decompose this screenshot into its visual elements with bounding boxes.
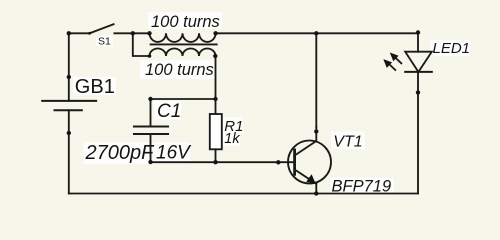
svg-text:VT1: VT1	[333, 134, 362, 151]
svg-text:100 turns: 100 turns	[145, 61, 214, 79]
transistor VT1 collector stroke	[295, 141, 317, 156]
label box: 100 turns (secondary)	[140, 60, 216, 79]
wire junction to primary coil	[133, 32, 150, 34]
node: LED top corner	[416, 30, 420, 34]
wire emitter lead down to bottom rail	[315, 184, 317, 194]
svg-text:1k: 1k	[224, 131, 240, 147]
LED1 triangle	[405, 52, 432, 72]
wire left rail upper (corner to battery top plate)	[68, 33, 70, 101]
node: battery bottom pin	[67, 131, 71, 135]
label box: GB1	[73, 77, 116, 95]
transistor VT1 circle	[288, 141, 331, 184]
svg-text:GB1: GB1	[75, 76, 115, 98]
inductor L1 primary 100 turns	[150, 33, 216, 42]
node: collector junction on top rail	[314, 31, 318, 35]
LED arrow 2 tail	[389, 64, 396, 71]
wire secondary coil down to R1	[215, 56, 217, 114]
node: primary coil left pin	[147, 31, 151, 35]
label box: VT1	[331, 132, 365, 150]
wire C1 bottom lead	[150, 134, 152, 162]
label box: S1	[96, 36, 113, 47]
node: primary coil right pin	[213, 31, 217, 35]
svg-text:C1: C1	[157, 101, 181, 122]
node: collector pin	[314, 129, 318, 133]
label box: LED1	[430, 40, 470, 56]
svg-text:S1: S1	[98, 35, 111, 47]
LED arrow 2 head	[383, 59, 392, 68]
wire collector lead up	[315, 127, 317, 141]
label box: 1k	[223, 131, 240, 146]
battery GB1 short plate	[55, 109, 82, 111]
wire C1 to transistor base	[151, 161, 295, 163]
node: secondary coil left pin	[148, 54, 152, 58]
svg-text:16V: 16V	[156, 143, 192, 164]
node: R1 bottom junction	[213, 160, 217, 164]
wire right rail to bottom	[417, 93, 419, 194]
wire bottom rail	[69, 193, 418, 195]
node: secondary coil right pin	[213, 54, 217, 58]
LED1 cathode bar	[405, 71, 432, 73]
node: C1 bottom pin	[148, 160, 152, 164]
label box: C1	[154, 101, 181, 120]
node: transistor base pin	[276, 160, 280, 164]
svg-text:2700pF: 2700pF	[85, 142, 156, 164]
resistor R1 body	[210, 114, 222, 149]
label box: R1	[223, 117, 243, 133]
wire C1 top lead	[150, 99, 152, 127]
switch S1 blade	[90, 24, 114, 33]
transistor emitter arrowhead	[306, 174, 316, 184]
wire collector to top rail	[315, 33, 317, 127]
svg-text:LED1: LED1	[433, 40, 471, 57]
inductor L2 secondary 100 turns	[150, 49, 216, 56]
node: battery top pin	[67, 75, 71, 79]
wire switch to junction	[114, 32, 132, 34]
battery GB1 long plate	[42, 100, 96, 102]
label box: 2700pF	[84, 142, 150, 164]
transistor VT1 base bar	[293, 150, 296, 174]
LED arrow 1 head	[390, 53, 399, 62]
wire top rail from primary coil to LED corner	[216, 32, 418, 34]
node: LED bottom pin	[416, 90, 420, 94]
label box: 16V	[154, 142, 191, 162]
svg-text:100 turns: 100 turns	[151, 13, 220, 31]
label box: BFP719	[330, 178, 394, 194]
capacitor C1 plates	[134, 125, 168, 127]
node: top-left corner	[67, 31, 71, 35]
wire left rail lower (battery bottom plate to bottom rail)	[68, 110, 70, 193]
wire branch down to secondary coil	[133, 33, 150, 56]
wire LED cathode lead	[417, 72, 419, 93]
wire right rail: top corner to LED anode	[417, 33, 419, 51]
node: C1 top pin	[148, 97, 152, 101]
node: R1 top junction	[213, 97, 217, 101]
wire C1 top to R1 rail	[151, 98, 216, 100]
LED arrow 1 tail	[395, 57, 402, 64]
label box: 100 turns (primary)	[148, 12, 222, 29]
node: switch-coil junction	[131, 31, 135, 35]
svg-text:BFP719: BFP719	[332, 178, 392, 196]
node: emitter junction on bottom rail	[314, 191, 318, 195]
transformer core	[151, 43, 217, 45]
wire R1 bottom lead	[215, 149, 217, 162]
transistor VT1 emitter stroke	[295, 170, 317, 184]
node: switch pivot	[88, 32, 91, 35]
wire top rail left segment to switch	[69, 32, 90, 34]
